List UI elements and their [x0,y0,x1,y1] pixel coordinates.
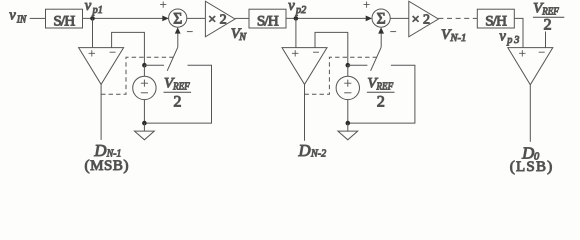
ground node junction dot (stage 1) [142,121,147,126]
S/H block SH3 (last stage sample-and-hold) [477,9,514,29]
summer S1 [169,9,187,27]
plus label at summer S1 left input [160,2,166,8]
wire node vp2 to comparator K2 + input [295,18,297,47]
label VN-1 [441,27,466,44]
minus label at comparator K3 - input [539,51,545,53]
minus label at summer S2 bottom input [390,31,396,33]
wire source V2 - terminal to ground node [347,100,349,124]
wire S/H1 to summer S1 [83,17,163,19]
svg-text:REF: REF [172,82,190,93]
wire vIN to S/H1 [30,17,46,19]
wire S/H3 to comparator K3 + input (node vp3) [514,18,523,47]
node VREF1 top junction [142,63,147,68]
dashed control line comparator K1 to switch SW1 [101,57,173,94]
svg-text:v: v [288,0,295,14]
svg-text:v: v [9,8,16,24]
label vp1 [85,0,103,16]
label vp3 [499,28,519,46]
minus label at comparator K1 - input [110,51,116,53]
comparator K1 [79,48,124,85]
wire comparator K3 output to bit D0 [529,85,531,142]
plus label at comparator K2 + input [292,50,298,56]
plus label at summer S2 left input [364,2,370,8]
svg-text:S/H: S/H [53,12,75,29]
svg-text:D: D [298,141,311,160]
comparator K3 [508,48,553,85]
switch SW2 blade [371,47,382,71]
bit label DN-2 [298,141,327,160]
arrowhead into summer S1 bottom input [175,27,181,33]
wire node VREF1 to source V1 + terminal [143,65,145,76]
wire node VREF2 to switch SW2 left terminal [348,64,368,66]
plus label inside source V2 [344,80,351,87]
wire comparator K2 output to bit D [304,84,306,140]
arrowhead into summer S1 left input [162,16,168,22]
svg-text:(MSB): (MSB) [85,158,129,174]
wire switch SW2 right terminal to ground return [348,65,415,123]
wire switch SW2 pole to summer S2 - input [380,32,382,47]
arrowhead into summer S2 bottom input [378,27,384,33]
amplifier A1 (gain of 2) [205,1,235,37]
svg-text:REF: REF [376,82,394,93]
svg-text:× 2: × 2 [412,13,430,28]
value label VREF/2 at comparator K3 [533,1,564,34]
svg-text:IN: IN [16,14,27,25]
input label vIN [9,8,27,26]
svg-text:v: v [85,0,92,14]
svg-text:(LSB): (LSB) [510,159,553,175]
wire S/H2 to summer S2 [286,17,366,19]
value label VREF/2 for source V2 [367,76,395,111]
plus label at comparator K3 + input [519,50,525,56]
svg-text:S/H: S/H [257,12,279,29]
switch SW1 blade [167,47,178,71]
wire summer S1 to amplifier A1 [187,17,206,19]
wire comparator K1 - input to node VREF1 [112,32,145,65]
wire switch SW1 right terminal to ground return [144,65,211,123]
plus label inside source V1 [141,80,148,87]
minus label at summer S1 bottom input [187,31,193,33]
wire A1 to S/H2 [235,17,249,19]
wire switch SW1 pole to summer S1 - input [177,32,179,47]
svg-text:Σ: Σ [173,10,182,27]
S/H block SH2 (stage 2 sample-and-hold) [249,9,286,29]
minus label inside source V2 [344,92,351,94]
svg-text:S/H: S/H [485,12,507,29]
minus label inside source V1 [141,92,148,94]
svg-text:2: 2 [377,93,385,111]
svg-text:Σ: Σ [377,10,386,27]
wire node VREF2 to source V2 + terminal [347,65,349,76]
wire source V1 - terminal to ground node [143,100,145,124]
svg-text:p2: p2 [295,5,306,16]
svg-text:p3: p3 [506,35,519,46]
voltage source V2 (VREF/2) [336,76,359,99]
ground symbol G2 [338,123,358,140]
node VREF2 top junction [346,63,351,68]
wire node VREF1 to switch SW1 left terminal [144,64,164,66]
wire VREF/2 to comparator K3 - input [545,32,547,48]
summer S2 [372,9,390,27]
comparator K2 [282,48,327,85]
plus label at comparator K1 + input [89,50,95,56]
wire summer S2 to amplifier A2 [390,17,409,19]
svg-text:v: v [499,28,506,44]
wire comparator K1 output to bit D [100,84,102,139]
node vp1 junction dot [90,16,95,21]
svg-text:2: 2 [544,16,552,34]
svg-text:2: 2 [173,93,181,111]
ground node junction dot (stage 2) [346,121,351,126]
arrowhead into summer S2 left input [366,16,372,22]
bit label DN-1 [93,141,121,160]
svg-text:N: N [238,32,247,43]
node vp2 junction dot [294,16,299,21]
svg-text:N-2: N-2 [310,148,327,160]
label vp2 [288,0,306,16]
value label VREF/2 for source V1 [164,76,192,111]
dashed wire A2 to S/H3 (omitted stages) [438,17,477,19]
bit label D0 [521,144,540,163]
svg-text:p1: p1 [92,5,103,16]
S/H block SH1 (stage 1 sample-and-hold) [46,9,83,29]
dashed control line comparator K2 to switch SW2 [305,57,377,94]
voltage source V1 (VREF/2) [133,76,156,99]
svg-text:× 2: × 2 [208,13,226,28]
minus label at comparator K2 - input [313,51,319,53]
wire comparator K2 - input to node VREF2 [315,32,348,65]
amplifier A2 (gain of 2) [409,1,439,37]
label VN [231,26,247,43]
svg-text:N-1: N-1 [449,33,466,44]
ground symbol G1 [135,123,155,140]
wire node vp1 to comparator K1 + input [92,18,94,47]
